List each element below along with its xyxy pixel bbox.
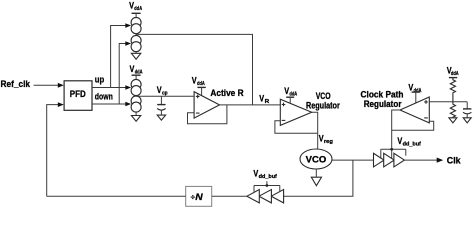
wire top charge pump node to V_R rail — [136, 34, 252, 105]
svg-text:cp: cp — [162, 91, 168, 97]
svg-text:VCO: VCO — [316, 91, 331, 101]
wire buffer output to Clk — [404, 158, 443, 163]
svg-text:Active R: Active R — [210, 88, 244, 98]
supply rail V_dd_buf (clock buffers) — [381, 136, 421, 159]
ground (top charge pump) — [131, 52, 140, 60]
svg-text:PFD: PFD — [70, 89, 86, 99]
svg-text:VCO: VCO — [306, 154, 327, 164]
label VCO Regulator — [306, 91, 340, 111]
current source I2 (down, top charge pump) — [131, 35, 141, 51]
supply V_ddA (op-amp U3) — [408, 82, 421, 103]
svg-text:reg: reg — [324, 139, 334, 145]
wire buffers to divider — [212, 195, 247, 197]
node V_cp label — [157, 85, 168, 97]
supply V_ddA (main charge pump) — [130, 64, 143, 80]
ground (C2) — [463, 118, 471, 123]
wire U2 feedback — [275, 121, 318, 134]
wire U1 output to V_R — [220, 104, 281, 106]
resistor R1 — [450, 78, 455, 102]
svg-text:Regulator: Regulator — [364, 99, 402, 109]
supply V_ddA (op-amp U1) — [192, 76, 206, 96]
svg-text:N: N — [195, 192, 204, 203]
wire Ref_clk to PFD — [34, 83, 64, 88]
svg-text:Ref_clk: Ref_clk — [1, 78, 31, 89]
wire up line — [92, 85, 131, 90]
svg-text:Clk: Clk — [447, 155, 462, 165]
wire U2 output to V_reg — [312, 112, 318, 149]
supply V_ddA (op-amp U2) — [284, 86, 297, 103]
wire U1 feedback — [188, 105, 227, 124]
wire U3 feedback — [392, 121, 434, 130]
node V_R label — [259, 93, 270, 105]
supply rail V_dd_buf (feedback buffers) — [253, 169, 279, 192]
node up label — [95, 75, 105, 85]
svg-text:ddA: ddA — [451, 71, 459, 77]
label Clock Path Regulator — [361, 89, 404, 109]
svg-text:ddA: ddA — [414, 88, 422, 94]
op-amp U3 Clock Path Regulator (mirrored) — [400, 97, 429, 123]
divider N — [186, 186, 212, 206]
wire U3 + input to divider node — [429, 101, 467, 103]
svg-text:down: down — [95, 92, 113, 102]
wire down line — [92, 102, 131, 107]
wire feedback into PFD — [47, 102, 64, 196]
svg-text:dd_buf: dd_buf — [259, 174, 277, 180]
supply V_ddA (resistor divider) — [447, 66, 459, 78]
label Active R — [210, 88, 244, 98]
svg-text:ddA: ddA — [134, 6, 142, 12]
wire divider to PFD (bottom) — [47, 195, 186, 197]
svg-text:V: V — [259, 93, 264, 103]
wire up branch to top charge pump — [111, 23, 132, 87]
current source I3 (up, main charge pump) — [131, 79, 141, 95]
buffer chain B4 B5 B6 (clock path, pointing right) — [374, 153, 405, 167]
wire down branch to top charge pump — [119, 41, 131, 104]
supply V_ddA (top charge pump) — [129, 0, 142, 17]
svg-text:dd_buf: dd_buf — [403, 142, 421, 148]
buffer chain B1 B2 B3 (feedback, pointing left) — [247, 190, 284, 203]
op-amp U2 VCO Regulator — [280, 99, 311, 125]
wire VCO output — [332, 159, 374, 161]
capacitor C1 (loop filter) — [157, 96, 165, 115]
svg-text:R: R — [265, 99, 270, 105]
wire VCO output down to feedback — [284, 160, 353, 196]
ground (VCO) — [311, 169, 321, 186]
PFD U0 — [64, 81, 92, 111]
VCO oscillator — [300, 149, 332, 169]
svg-text:ddA: ddA — [197, 81, 205, 87]
capacitor C2 (divider bypass) — [463, 102, 471, 118]
current source I1 (up, top charge pump) — [131, 17, 141, 33]
node V_reg label — [319, 133, 334, 145]
op-amp U1 Active R — [194, 92, 219, 118]
ground (C1) — [157, 115, 165, 120]
current source I4 (down, main charge pump) — [131, 96, 141, 112]
wire U3 output down to V_dd_buf rail — [392, 110, 400, 159]
svg-text:Clock Path: Clock Path — [361, 89, 404, 99]
node Ref_clk label — [1, 78, 31, 89]
node Clk label — [447, 155, 462, 165]
svg-text:Regulator: Regulator — [306, 101, 340, 111]
ground (main charge pump) — [131, 112, 140, 121]
wire V_cp node — [136, 96, 194, 97]
resistor R2 — [450, 102, 455, 118]
ground (R2) — [449, 118, 457, 123]
svg-text:up: up — [95, 75, 105, 85]
node down label — [95, 92, 113, 102]
